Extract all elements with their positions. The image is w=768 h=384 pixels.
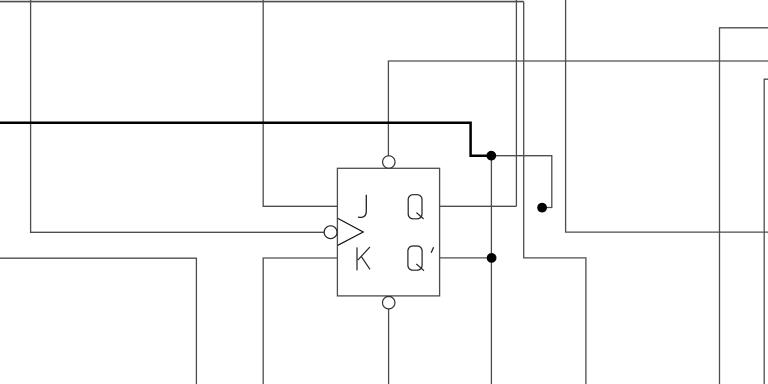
wire vertical at Q column — [515, 0, 517, 206]
wire hook to floating post — [491, 156, 551, 208]
junction dot C — [537, 203, 547, 213]
flip-flop U1 body — [337, 168, 439, 296]
clock bubble — [324, 226, 337, 239]
wire K input net — [263, 258, 337, 384]
pin label Q2 — [408, 246, 424, 271]
wire right clock net — [566, 0, 768, 232]
pin label K — [357, 247, 370, 270]
wire Q output — [440, 205, 517, 207]
pin label J — [358, 195, 366, 218]
pin label Q — [408, 195, 423, 219]
wire top horizontal net — [0, 1, 524, 3]
wire clear net from bottom bubble — [388, 309, 390, 384]
wire vertical through junctions — [490, 156, 492, 384]
wire preset net to top bubble — [388, 61, 768, 156]
wire far-right vertical with corner — [764, 79, 768, 384]
clear bubble — [383, 297, 395, 309]
junction dot A — [486, 151, 496, 161]
wire top corner down to lower-right run — [524, 2, 586, 384]
wire right vertical with top corner — [720, 28, 768, 384]
wire J input net — [263, 0, 337, 206]
prime mark — [431, 247, 433, 253]
junction dot B — [487, 253, 497, 263]
wire thick black net — [0, 123, 487, 156]
wire Q' output — [440, 257, 492, 259]
clock triangle — [338, 218, 363, 245]
wire bottom-left net — [0, 258, 196, 384]
preset bubble — [383, 156, 395, 168]
wire left vertical to clock — [31, 0, 325, 232]
